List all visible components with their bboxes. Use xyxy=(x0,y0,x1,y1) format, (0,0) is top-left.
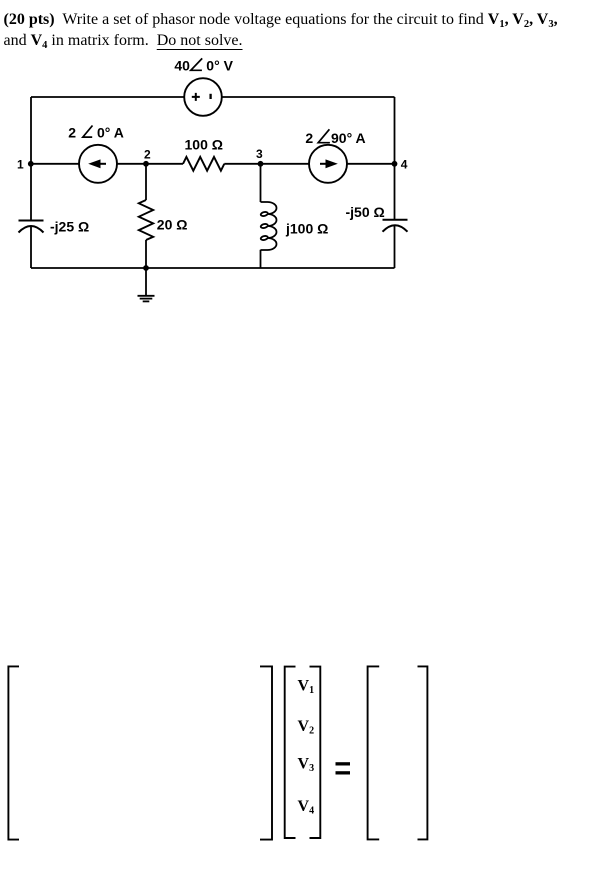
voltage source minus tick xyxy=(209,94,211,99)
resistor R1 100ohm zigzag xyxy=(183,157,224,171)
matrix B left bracket xyxy=(368,666,380,839)
wire L1 to bottom xyxy=(260,250,262,268)
current source I2 arrow (right) xyxy=(320,159,338,168)
node 3 junction dot xyxy=(258,161,264,167)
svg-text:V3: V3 xyxy=(298,756,315,775)
label 40 angle 0 V xyxy=(174,58,233,74)
label 2 angle 90 A xyxy=(305,129,365,146)
inductor L1 j100 coil xyxy=(260,202,276,250)
voltage source plus sign xyxy=(192,93,200,101)
svg-text:100 Ω: 100 Ω xyxy=(185,136,223,152)
wire R2 to bottom xyxy=(145,240,147,268)
svg-text:20 Ω: 20 Ω xyxy=(157,217,188,233)
wire source I2 to node 4 xyxy=(347,163,395,165)
wire source I1 to resistor R1 xyxy=(117,163,183,165)
wire node2 down to R2 xyxy=(145,164,147,200)
node 4 junction dot xyxy=(392,161,398,167)
vector V right bracket xyxy=(310,667,321,838)
wire left vertical upper xyxy=(30,97,32,221)
node 2 junction dot xyxy=(143,161,149,167)
svg-text:0° V: 0° V xyxy=(206,58,233,74)
svg-text:V1: V1 xyxy=(298,678,315,697)
wire node3 down to L1 xyxy=(260,164,262,202)
ground xyxy=(138,268,155,301)
voltage source V1 40V circle xyxy=(184,78,222,116)
vector V left bracket xyxy=(285,667,296,838)
wire right vertical upper xyxy=(394,97,396,220)
svg-text:-j50 Ω: -j50 Ω xyxy=(346,204,385,220)
capacitor C1 -j25 plates xyxy=(19,221,44,233)
matrix A right bracket xyxy=(260,666,272,839)
ground junction dot xyxy=(143,265,149,271)
current source I1 arrow (left) xyxy=(88,159,106,168)
node 1 junction dot xyxy=(28,161,34,167)
matrix B right bracket xyxy=(418,666,428,839)
wire right vertical lower xyxy=(394,225,396,268)
svg-text:40: 40 xyxy=(174,58,190,74)
wire top left horizontal xyxy=(31,96,184,98)
capacitor C2 -j50 plates xyxy=(383,220,408,232)
problem statement text xyxy=(4,9,594,51)
svg-text:2: 2 xyxy=(68,125,76,141)
svg-text:V4: V4 xyxy=(298,798,315,817)
svg-text:2: 2 xyxy=(305,130,313,146)
svg-text:3: 3 xyxy=(256,147,263,161)
svg-text:j100 Ω: j100 Ω xyxy=(285,221,328,237)
matrix A left bracket xyxy=(8,666,19,839)
equals sign xyxy=(336,762,351,774)
svg-text:90° A: 90° A xyxy=(331,130,366,146)
label 2 angle 0 A xyxy=(68,125,124,141)
svg-text:V2: V2 xyxy=(298,718,315,737)
wire left vertical lower xyxy=(30,226,32,268)
wire resistor R1 to node3 and source I2 xyxy=(224,163,309,165)
wire bottom horizontal xyxy=(31,267,395,269)
svg-text:0° A: 0° A xyxy=(97,125,124,141)
resistor R2 20ohm zigzag vertical xyxy=(139,200,153,240)
svg-text:-j25 Ω: -j25 Ω xyxy=(50,218,89,234)
svg-text:4: 4 xyxy=(401,158,408,172)
svg-text:1: 1 xyxy=(17,157,24,171)
current source I1 2A circle xyxy=(79,145,117,183)
current source I2 2A circle xyxy=(309,145,347,183)
wire top right horizontal xyxy=(222,96,395,98)
wire mid node1 to source I1 xyxy=(31,163,79,165)
svg-text:2: 2 xyxy=(144,147,151,161)
